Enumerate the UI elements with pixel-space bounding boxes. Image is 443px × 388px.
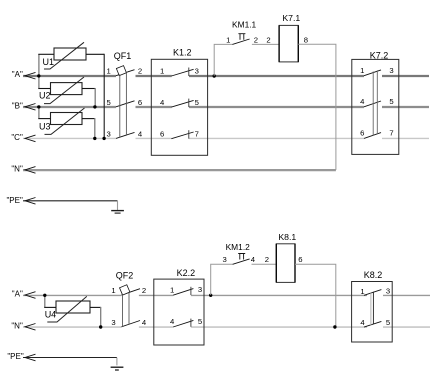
- svg-text:3: 3: [389, 66, 393, 75]
- svg-text:1: 1: [170, 285, 174, 294]
- svg-text:K1.2: K1.2: [173, 48, 192, 58]
- K7.2 contact 1-3 blade: [364, 70, 381, 76]
- wire phase C row segment right of K7.2: [382, 137, 429, 139]
- wire phase B row segment K1.2 to K7.2 blade: [189, 106, 364, 108]
- K8.2 linkage bar: [370, 293, 372, 325]
- wire U1 right lead down to C: [86, 53, 104, 55]
- svg-text:"C": "C": [11, 133, 23, 142]
- svg-text:5: 5: [106, 98, 110, 107]
- node junction N / K8.1 return: [333, 325, 336, 328]
- K2.2 contact 4-5 tick: [190, 319, 192, 327]
- wire K7.1 return to N: [298, 44, 336, 170]
- K2.2 contact 1-3 blade: [173, 289, 193, 296]
- svg-text:2: 2: [138, 67, 142, 76]
- node "A" (top) arrow: [25, 72, 36, 79]
- node "B" (top) arrow: [25, 104, 36, 111]
- K2.2 contact 1-3 tick: [190, 287, 192, 295]
- wire neutral N row (bottom) left segment: [23, 326, 122, 328]
- node "N" (bottom) arrow: [25, 324, 36, 331]
- wire phase C row segment K1.2 to K7.2 blade: [189, 137, 364, 139]
- wire neutral N row (bottom) right of K8.2: [383, 326, 430, 328]
- svg-text:QF1: QF1: [114, 51, 132, 61]
- svg-text:U2: U2: [39, 91, 51, 101]
- K2.2 contact 4-5 blade: [173, 320, 193, 327]
- K1.2 contact 1-3 blade: [171, 69, 193, 76]
- svg-text:"A": "A": [12, 290, 23, 299]
- varistor U3: [39, 108, 85, 134]
- svg-text:1: 1: [226, 35, 230, 44]
- relay contact block K2.2: [154, 268, 204, 345]
- wire phase A row segment right of K7.2: [382, 75, 429, 77]
- wire phase A row segment K1.2 to K7.2 blade: [189, 75, 364, 77]
- wire phase C row segment left (arrow to QF1): [23, 137, 116, 139]
- K1.2 contact 4-5 tick: [188, 99, 190, 108]
- svg-text:K7.1: K7.1: [282, 13, 300, 23]
- svg-text:3: 3: [386, 287, 390, 296]
- svg-text:"B": "B": [12, 101, 23, 110]
- svg-text:6: 6: [298, 255, 302, 264]
- wire phase B row segment left (arrow to QF1): [23, 106, 116, 108]
- contactor contact KM1.2: [222, 242, 255, 264]
- wire U1 left lead: [38, 54, 40, 75]
- contactor contact KM1.1: [226, 19, 258, 44]
- node "PE" (top) arrow: [25, 198, 36, 205]
- KM1.1 contactor mark: [238, 34, 245, 40]
- svg-text:K2.2: K2.2: [177, 268, 196, 278]
- svg-text:3: 3: [106, 129, 110, 138]
- svg-text:4: 4: [138, 129, 143, 138]
- svg-text:6: 6: [360, 129, 364, 138]
- relay contact block K8.2: [352, 270, 393, 342]
- K7.2 linkage bars: [372, 72, 374, 136]
- svg-text:7: 7: [195, 129, 199, 138]
- svg-text:1: 1: [111, 286, 115, 295]
- wire U2 left lead: [38, 76, 40, 89]
- relay contact block K7.2: [352, 51, 399, 155]
- svg-text:2: 2: [265, 255, 269, 264]
- wire neutral N row (bottom) K2.2 to K8.2 blade: [191, 326, 367, 328]
- svg-text:KM1.1: KM1.1: [232, 19, 257, 29]
- svg-text:8: 8: [304, 36, 308, 45]
- svg-text:4: 4: [360, 318, 365, 327]
- KM1.1 blade: [232, 39, 249, 44]
- svg-text:"A": "A": [12, 70, 23, 79]
- svg-text:1: 1: [160, 67, 164, 76]
- wire U3 right lead down to C: [82, 118, 95, 120]
- svg-text:4: 4: [142, 318, 147, 327]
- wire branch up from A to KM1.2: [211, 264, 233, 295]
- wire U4 left lead: [44, 295, 46, 307]
- svg-text:3: 3: [111, 318, 115, 327]
- node junction C/U1: [102, 137, 105, 140]
- node junction A/U1/U2: [37, 74, 40, 77]
- wire U4 right lead down to N: [90, 306, 101, 308]
- svg-text:4: 4: [170, 317, 175, 326]
- wire phase A row (bottom) left segment: [23, 294, 122, 296]
- wire K8.1 return to N: [295, 264, 336, 327]
- wire PE (top) with bend down to ground: [23, 200, 118, 202]
- K7.2 contact 6-7 blade: [364, 133, 381, 139]
- K1.2 contact 6-7 blade: [171, 132, 193, 139]
- QF2 pole 2 blade: [122, 321, 141, 327]
- wire phase B row segment QF1 to K1.2 blade: [136, 106, 172, 108]
- svg-text:5: 5: [195, 98, 199, 107]
- svg-text:4: 4: [251, 255, 256, 264]
- node "A" (bottom) arrow: [25, 292, 36, 299]
- svg-text:QF2: QF2: [116, 270, 134, 280]
- wire U2 right lead down to B: [82, 88, 95, 90]
- node junction B/U2: [93, 105, 96, 108]
- svg-text:K8.2: K8.2: [364, 270, 383, 280]
- svg-text:2: 2: [142, 286, 146, 295]
- node "N" (top) arrow: [25, 167, 36, 174]
- wire neutral N row (top): [23, 169, 336, 171]
- svg-text:"N": "N": [11, 321, 23, 330]
- node "C" (top) arrow: [25, 135, 36, 142]
- svg-text:KM1.2: KM1.2: [226, 242, 251, 252]
- relay coil K7.1: [266, 13, 308, 62]
- svg-text:2: 2: [254, 35, 258, 44]
- KM1.2 blade: [233, 259, 250, 264]
- varistor U4: [45, 296, 90, 322]
- svg-text:2: 2: [266, 35, 270, 44]
- wire phase A row (bottom) right of K8.2: [383, 294, 430, 296]
- svg-text:U1: U1: [43, 57, 55, 67]
- node junction B/U3: [37, 105, 40, 108]
- svg-text:6: 6: [138, 98, 142, 107]
- K7.2 contact 4-5 blade: [364, 101, 381, 107]
- node junction A/U4: [43, 294, 46, 297]
- QF2 linkage bars: [122, 295, 124, 327]
- wire KM1.2 to K8.1: [252, 263, 277, 265]
- svg-text:4: 4: [360, 97, 365, 106]
- QF1 pole 3 blade: [116, 132, 135, 138]
- varistor U1: [43, 42, 87, 69]
- K8.2 contact 4-5 blade: [364, 321, 381, 327]
- breaker QF1: [106, 51, 142, 138]
- QF1 pole 1 blade: [116, 70, 135, 76]
- wire PE (bottom) with bend down to ground: [23, 357, 117, 359]
- K1.2 contact 6-7 tick: [188, 130, 190, 139]
- node junction N/U4: [99, 325, 102, 328]
- svg-text:1: 1: [106, 67, 110, 76]
- QF1 breaker square on pole 1: [116, 66, 126, 76]
- K1.2 contact 1-3 tick: [188, 68, 190, 77]
- svg-text:5: 5: [386, 318, 390, 327]
- K1.2 contact 4-5 blade: [171, 100, 193, 107]
- svg-text:K8.1: K8.1: [278, 232, 296, 242]
- K8.2 contact 1-3 blade: [364, 290, 381, 296]
- wire phase A row (bottom) K2.2 to K8.2 blade: [191, 294, 367, 296]
- QF1 pole 2 blade: [116, 101, 135, 107]
- svg-text:3: 3: [222, 255, 226, 264]
- svg-text:3: 3: [195, 67, 199, 76]
- svg-text:6: 6: [160, 129, 164, 138]
- svg-text:1: 1: [360, 287, 364, 296]
- svg-text:U3: U3: [39, 121, 51, 131]
- ground (top PE): [111, 211, 124, 214]
- node junction A / KM1.2 branch: [209, 294, 212, 297]
- svg-text:3: 3: [198, 285, 202, 294]
- svg-text:4: 4: [160, 98, 165, 107]
- node "PE" (bottom) arrow: [25, 354, 36, 361]
- svg-text:U4: U4: [45, 310, 57, 320]
- breaker QF2: [111, 270, 147, 327]
- svg-text:"PE": "PE": [7, 352, 24, 361]
- wire phase C row segment QF1 to K1.2 blade: [136, 137, 172, 139]
- svg-text:5: 5: [389, 97, 393, 106]
- relay coil K8.1: [265, 232, 303, 282]
- node junction C/U3: [93, 137, 96, 140]
- wire phase A row (bottom) QF2 to K2.2 blade: [139, 294, 173, 296]
- varistor U2: [39, 77, 84, 104]
- svg-text:"N": "N": [11, 164, 23, 173]
- QF2 pole 1 blade: [122, 289, 141, 295]
- wire phase A row segment left (arrow to QF1): [23, 75, 116, 77]
- node junction A / KM1.1 branch: [213, 74, 216, 77]
- wire U3 left lead: [38, 107, 40, 119]
- QF2 breaker square on pole 1: [120, 285, 130, 295]
- svg-text:1: 1: [360, 66, 364, 75]
- ground (bottom PE): [111, 367, 124, 370]
- svg-text:7: 7: [389, 129, 393, 138]
- wire branch up from A to KM1.1: [214, 44, 232, 75]
- svg-text:5: 5: [198, 317, 202, 326]
- QF1 linkage bars: [119, 74, 121, 137]
- wire phase B row segment right of K7.2: [382, 106, 429, 108]
- KM1.2 contactor mark: [238, 254, 245, 260]
- wire KM1.1 to K7.1: [252, 43, 279, 45]
- wire phase A row segment QF1 to K1.2 blade: [136, 75, 172, 77]
- wire neutral N row (bottom) QF2 to K2.2 blade: [139, 326, 173, 328]
- relay contact block K1.2: [151, 48, 207, 156]
- svg-text:"PE": "PE": [6, 196, 23, 205]
